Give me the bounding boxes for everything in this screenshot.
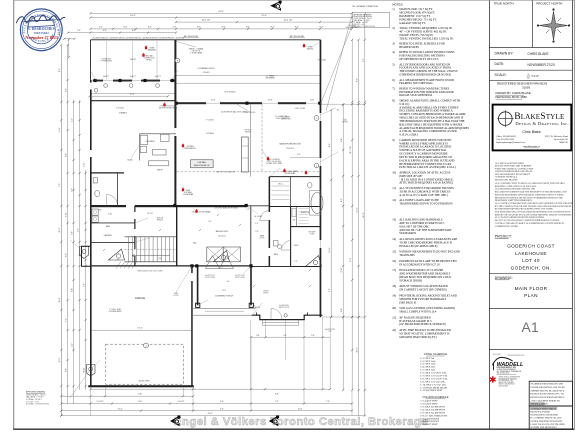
svg-text:LINTEL SCHEDULE: LINTEL SCHEDULE [424,352,448,356]
svg-text:L-2 2 PLY 2x10: L-2 2 PLY 2x10 [421,361,437,363]
leader lines fan from top wall [177,42,197,48]
svg-text:27'-4": 27'-4" [137,327,142,329]
line of floor above dashed [177,171,321,173]
svg-text:DRAWINGS IN WHOLE OR IN PART I: DRAWINGS IN WHOLE OR IN PART IS FORBIDDE… [495,196,564,199]
svg-text:STEEL INSUL DOOR C/W CLOSER: STEEL INSUL DOOR C/W CLOSER [137,271,163,273]
svg-text:"=1'-0": "=1'-0" [531,74,539,78]
svg-text:N0M 1J0: N0M 1J0 [559,142,568,144]
svg-text:17): 17) [392,268,396,272]
left dimension chains [60,45,62,416]
svg-text:BUILT-IN: BUILT-IN [157,218,163,220]
svg-text:6): 6) [392,78,394,82]
svg-text:GODERICH, ON.: GODERICH, ON. [511,266,552,271]
svg-text:ENSUITE: ENSUITE [301,212,310,214]
svg-text:18'-7 3/4": 18'-7 3/4" [350,145,352,154]
svg-text:LIVING: LIVING [206,133,213,135]
svg-text:WITHIN THE BUILDING.: WITHIN THE BUILDING. [530,426,557,429]
svg-text:OF DIFFERENT PLYS OF LVL'S: OF DIFFERENT PLYS OF LVL'S [399,57,439,61]
svg-text:2'-8": 2'-8" [255,231,259,233]
svg-text:9' CEILING: 9' CEILING [116,108,125,110]
svg-text:C-7 4x4 HSS POST: C-7 4x4 HSS POST [421,418,440,420]
svg-text:L-5 3 PLY 2x12: L-5 3 PLY 2x12 [421,370,437,372]
BlakeStyle circle logo [499,112,513,126]
svg-text:3'-6": 3'-6" [208,221,212,223]
svg-text:Chris Blake: Chris Blake [522,130,540,134]
svg-text:CONTRACTOR MUST VERIFY ALL DIM: CONTRACTOR MUST VERIFY ALL DIMENSIONS ON… [495,222,565,225]
svg-text:L-9 2 PLY 1.75"x14" LVL: L-9 2 PLY 1.75"x14" LVL [421,381,446,383]
deck joist lines [175,74,321,76]
svg-text:GARAGE: 609 SQ FT.: GARAGE: 609 SQ FT. [399,21,426,25]
svg-text:8x8 P.T: 8x8 P.T [103,76,109,78]
svg-text:57% OPT + 44%: 57% OPT + 44% [354,24,366,26]
svg-text:3): 3) [392,42,394,46]
svg-text:7'-4": 7'-4" [77,30,81,32]
svg-text:ENTRY: ENTRY [263,292,268,294]
svg-text:ELECTRICAL CIRCUIT AS PER (OBC: ELECTRICAL CIRCUIT AS PER (OBC 9.33.4.) [399,165,455,169]
svg-text:22): 22) [392,328,396,332]
svg-text:DRAWING:: DRAWING: [495,276,513,280]
svg-text:8'-4": 8'-4" [320,27,324,29]
svg-text:18): 18) [392,284,396,288]
svg-text:9.10.19.1 (3)(4.): 9.10.19.1 (3)(4.) [399,133,418,137]
post circles below band [94,88,98,92]
top dimension row 5 [91,28,353,30]
title block outline [488,0,490,429]
svg-text:COLUMN SCHEDULE: COLUMN SCHEDULE [422,395,448,399]
svg-text:8'-4": 8'-4" [295,27,299,29]
laundry washer dryer [92,209,98,215]
approved drawing note top right [352,12,390,27]
svg-text:STORAGE DOOR): STORAGE DOOR) [399,278,422,282]
svg-text:ON TOP OF: ON TOP OF [192,50,201,52]
kitchen north wall [91,100,176,102]
svg-text:9'-6": 9'-6" [66,368,68,372]
svg-text:5): 5) [392,62,394,66]
svg-text:L-11 W8x31 STEEL BEAM: L-11 W8x31 STEEL BEAM [421,386,447,389]
top dimension row 4 left [68,32,176,34]
svg-text:C-4 2 PLY 2x6 SPF POST: C-4 2 PLY 2x6 SPF POST [421,409,446,411]
svg-text:8'-6": 8'-6" [357,78,359,82]
left deck window band wall [93,80,175,82]
svg-text:3 PLY 2x10 FLUSH: 3 PLY 2x10 FLUSH [267,161,282,163]
svg-text:METER: METER [342,121,348,123]
garage pier leader [70,370,90,398]
svg-text:2): 2) [392,26,394,30]
svg-text:9'-8": 9'-8" [66,153,68,157]
svg-text:24'-2": 24'-2" [59,297,61,302]
svg-text:GREATER THAN 3000 SQ FT.): GREATER THAN 3000 SQ FT.) [399,335,437,339]
svg-text:11): 11) [392,186,396,190]
svg-text:14): 14) [392,237,396,241]
svg-text:2'-10": 2'-10" [84,162,86,167]
deck inner dim line [90,95,169,97]
svg-text:C-1 4x4 P.T POST: C-1 4x4 P.T POST [421,401,439,403]
junction squares [173,204,176,207]
main interior vertical wall [174,40,176,207]
svg-text:46'-2": 46'-2" [363,212,365,217]
svg-text:LIN: LIN [293,220,295,222]
svg-text:PROJECT:: PROJECT: [495,234,512,238]
svg-text:DRAWN BY:: DRAWN BY: [495,51,514,55]
svg-text:(24" FROM PORCH/DECK SURFACE): (24" FROM PORCH/DECK SURFACE) [399,322,446,326]
sheet frame right border [573,0,575,429]
svg-text:31'-6": 31'-6" [357,207,359,212]
svg-text:6'-0": 6'-0" [297,154,301,156]
svg-text:AND/OR HOMEOWNER AND SHALL: AND/OR HOMEOWNER AND SHALL [495,170,534,173]
svg-text:LINEN: LINEN [294,245,299,247]
circle tags [175,58,180,63]
svg-text:T4: T4 [221,267,223,269]
stairwell right wall lower [176,207,177,267]
svg-text:VIA CHANGE ORDER FROM THE DESI: VIA CHANGE ORDER FROM THE DESIGN FIRM. [495,216,545,219]
svg-text:6'-4": 6'-4" [72,288,74,292]
svg-text:4): 4) [392,50,394,54]
svg-text:PROJECT NORTH: PROJECT NORTH [536,2,562,6]
svg-text:7'-2": 7'-2" [59,183,61,187]
svg-text:8'-4": 8'-4" [148,27,152,29]
svg-text:November 27 2023: November 27 2023 [25,35,57,40]
svg-text:4'x7'6: 4'x7'6 [268,100,272,102]
svg-text:GARAGE: GARAGE [135,297,146,300]
svg-text:21'-4": 21'-4" [118,408,123,410]
pier marker left bump [80,247,89,259]
stairs [125,236,177,238]
svg-text:ALL SPECS & NOTED SIZES: ALL SPECS & NOTED SIZES [495,162,525,165]
svg-text:MUST BE RETURNED UPON REQUEST.: MUST BE RETURNED UPON REQUEST. REPRODUCT… [495,194,565,196]
svg-text:IN ACCORDANCE WITH 9.27.10: IN ACCORDANCE WITH 9.27.10 [399,262,440,266]
svg-text:5'-8": 5'-8" [84,283,86,287]
svg-text:(SEE PAGE 9): (SEE PAGE 9) [399,300,416,304]
svg-text:(DROPPED): (DROPPED) [282,118,291,120]
svg-text:16): 16) [392,259,396,263]
svg-text:W.I.C.: W.I.C. [278,183,284,185]
svg-text:RELATED DOCUMENTS ARE THE PROP: RELATED DOCUMENTS ARE THE PROPERTY OF TH… [495,191,567,194]
svg-text:ON CABINET LAYOUT (BY OTHERS): ON CABINET LAYOUT (BY OTHERS) [399,288,446,292]
garage top wall [91,265,252,267]
svg-text:15'-10": 15'-10" [147,213,153,215]
svg-text:blakestyledesign@hotmail.com: blakestyledesign@hotmail.com [496,141,525,144]
deck left edge [90,40,92,80]
covered porch walls [197,266,199,305]
svg-text:NOTES:: NOTES: [392,2,403,6]
top dimension row 3 [176,21,352,23]
svg-text:3'-8": 3'-8" [275,394,279,396]
svg-text:NOVEMBER 27/23: NOVEMBER 27/23 [528,63,555,67]
svg-text:19): 19) [392,294,396,298]
signature [16,15,65,23]
svg-text:9'-4": 9'-4" [220,401,224,403]
front entry wall with recess [252,315,323,319]
svg-text:L-8 3 PLY 1.75"x11.87" LVL: L-8 3 PLY 1.75"x11.87" LVL [421,378,449,380]
svg-text:9'-4": 9'-4" [226,281,230,283]
svg-text:21): 21) [392,315,396,319]
svg-text:WIRE: WIRE [150,48,154,50]
island [149,161,169,166]
sheet frame bottom border [13,428,574,430]
svg-text:L-10 3 PLY 1.75"x14" LVL: L-10 3 PLY 1.75"x14" LVL [421,384,447,386]
svg-text:APPROVED DRAWING: APPROVED DRAWING [354,14,373,17]
porch recess dimension [251,336,330,338]
stamped truss note box [529,381,572,406]
hall and bath interior detail [260,211,270,221]
svg-text:7'-4": 7'-4" [326,401,330,403]
svg-text:ENGINEERING LTD.: ENGINEERING LTD. [497,367,517,369]
svg-text:CHRIS BLAKE: CHRIS BLAKE [528,52,549,56]
svg-text:31'-4": 31'-4" [261,15,267,17]
hall walls right section [291,266,320,268]
garage door dashed [106,344,184,384]
svg-text:SHOWER: SHOWER [309,232,317,234]
svg-text:INSTALLATION: INSTALLATION [530,403,548,406]
svg-text:8'-6": 8'-6" [329,143,331,147]
master bedroom wall vertical [269,177,271,267]
svg-text:12): 12) [392,198,396,202]
svg-text:2'-8": 2'-8" [311,335,315,337]
svg-text:ON 12" SONO: ON 12" SONO [205,277,216,279]
svg-text:4 PLY 1 3/4 LVL FLUSH: 4 PLY 1 3/4 LVL FLUSH [160,106,178,108]
ensuite tub [311,193,323,214]
extra leader lines [312,42,321,48]
svg-text:7'-2": 7'-2" [66,318,68,322]
svg-text:5.7% OPT + 4.4%: 5.7% OPT + 4.4% [26,401,39,403]
svg-text:ATTIC HATCH REQUIRES A R-20 RA: ATTIC HATCH REQUIRES A R-20 RATING) [399,181,453,185]
svg-text:Brucefield, ON: Brucefield, ON [554,138,568,141]
svg-text:CONSENT FROM ALL: CONSENT FROM ALL [495,176,518,179]
svg-text:5'-2": 5'-2" [72,118,74,122]
svg-text:1): 1) [392,7,394,11]
svg-text:TRANSOMS: TRANSOMS [399,253,415,257]
svg-text:MUD: MUD [106,226,111,228]
svg-text:A1: A1 [522,320,539,335]
svg-text:T5: T5 [117,260,119,262]
svg-text:COVERED DECK: COVERED DECK [197,68,215,70]
svg-text:ALL DRAWINGS SPECIFICATIONS AN: ALL DRAWINGS SPECIFICATIONS AND [495,188,536,191]
top dimension row 2 [91,17,353,19]
extra chain ticks right [342,149,344,151]
svg-text:8'-4": 8'-4" [132,30,136,32]
svg-text:18'-4": 18'-4" [130,15,136,17]
svg-text:3'-2": 3'-2" [329,288,331,292]
svg-text:BEDROOM BELOW: BEDROOM BELOW [194,165,210,167]
svg-text:9): 9) [392,138,394,142]
svg-text:18x18: 18x18 [84,368,86,372]
bedroom2 closet [207,247,223,262]
red asterisk note [490,376,496,382]
svg-text:MAY BE CHECKED AND VERIFIED: MAY BE CHECKED AND VERIFIED [495,165,532,168]
powder door arc [107,195,118,206]
svg-text:11'-0": 11'-0" [138,401,143,403]
svg-text:HEADER SIZES: HEADER SIZES [399,45,419,49]
svg-text:PERSONAL BCIN: 2586: PERSONAL BCIN: 2586 [496,95,528,99]
powder room walls [91,172,125,174]
svg-text:3'0x6'8 INSUL: 3'0x6'8 INSUL [279,305,289,307]
svg-text:L-12 W8 STEEL POST: L-12 W8 STEEL POST [421,390,443,392]
svg-text:4'x7'6: 4'x7'6 [310,100,314,102]
svg-text:BE REPORTED BEFORE PROCEEDING: BE REPORTED BEFORE PROCEEDING WITH ANY W… [495,208,554,211]
svg-text:9' CEILING: 9' CEILING [206,120,215,122]
master bedroom wall horizontal [269,176,319,178]
svg-text:SHALL COMPLY WITH 9.13.4: SHALL COMPLY WITH 9.13.4 [399,310,437,314]
svg-text:ROUGH STUD OPENINGS: ROUGH STUD OPENINGS [399,93,432,97]
svg-text:C-2 6x6 P.T POST: C-2 6x6 P.T POST [421,404,439,406]
svg-text:2'-10": 2'-10" [138,394,143,396]
extra inner dim ticks [253,285,255,287]
svg-text:4'-6": 4'-6" [78,228,80,232]
main north wall band with windows [175,102,321,104]
south arrow bottom 2 [269,415,279,426]
svg-text:10): 10) [392,171,396,175]
svg-text:BENCH: BENCH [157,219,162,221]
sheet frame top border [14,0,575,1]
extra chain ticks left [60,119,62,121]
svg-text:TEL 519-357-2250: TEL 519-357-2250 [497,373,510,375]
BlakeStyle logo box [493,105,572,151]
svg-text:BEDROOM 2: BEDROOM 2 [216,231,229,233]
svg-text:PLAN: PLAN [524,293,538,298]
title block north cells [489,47,572,49]
svg-text:ENTRY DOOR: ENTRY DOOR [279,307,290,309]
boxed low wall label [191,160,214,168]
svg-text:Office: 519-482-4092: Office: 519-482-4092 [496,136,516,138]
svg-text:SCALE:: SCALE: [495,73,507,77]
svg-text:8x8 P.T: 8x8 P.T [155,76,161,78]
svg-text:5'-2": 5'-2" [72,343,74,347]
svg-text:L-7 2 PLY 1.75"x11.87" LVL: L-7 2 PLY 1.75"x11.87" LVL [421,376,449,378]
svg-text:31'0x8'0: 31'0x8'0 [203,72,210,74]
wic hatch [272,181,290,183]
entry door arc [271,308,282,319]
bottom dimension rows [91,388,331,390]
svg-text:LOW WALL: LOW WALL [197,161,206,164]
svg-text:4'-2": 4'-2" [255,223,259,225]
north arrow top 1 [270,1,281,11]
svg-text:6'-4": 6'-4" [341,308,343,312]
svg-text:11'-2": 11'-2" [59,127,61,132]
svg-text:COVERED PORCH: COVERED PORCH [215,295,234,297]
ensuite walls [269,206,319,208]
bedroom2 walls [250,206,252,266]
svg-text:DINING: DINING [119,113,127,115]
svg-text:www.blakestyle.ca: www.blakestyle.ca [523,145,541,148]
svg-text:FRAMING NOT DRYWALL: FRAMING NOT DRYWALL [399,81,433,85]
svg-text:OTHERWISE DIMENSIONED OR NOTED: OTHERWISE DIMENSIONED OR NOTED [399,73,451,77]
svg-text:8'-4": 8'-4" [124,27,128,29]
svg-text:T1/2: T1/2 [222,290,226,292]
svg-text:COMMENCING WORK.: COMMENCING WORK. [495,226,519,228]
svg-text:APPROVED DRAWING: APPROVED DRAWING [26,391,46,394]
svg-text:12'-4": 12'-4" [298,408,303,410]
major mid wall [91,205,247,207]
svg-text:C-9 8x8 P.T POST: C-9 8x8 P.T POST [421,424,439,426]
svg-text:18'-4 1/4": 18'-4 1/4" [201,20,210,22]
deck post grid verticals [105,41,107,79]
engineer stamp [20,9,62,51]
svg-text:ON 12" SONO: ON 12" SONO [235,277,246,279]
svg-text:TOTAL VENTING INSTALLED: 1218: TOTAL VENTING INSTALLED: 1218 SQ IN. [399,36,454,40]
svg-text:ALL CONTRACTORS MUST BE CHECKE: ALL CONTRACTORS MUST BE CHECKED AND VERI… [495,202,573,205]
svg-text:15): 15) [392,250,396,254]
svg-text:INSTALLED (IF APPLICABLE): INSTALLED (IF APPLICABLE) [399,244,437,248]
svg-text:LOT 40: LOT 40 [522,258,540,263]
svg-text:20): 20) [392,306,396,310]
left wall of house [90,80,92,387]
svg-text:9'-10": 9'-10" [341,267,343,272]
svg-text:36'-0": 36'-0" [357,347,359,352]
svg-text:7'-4": 7'-4" [275,401,279,403]
bottom vertical extension lines [250,320,252,389]
svg-text:CONSULTING ENGINEERS: CONSULTING ENGINEERS [497,369,516,371]
svg-text:11'6x10'2: 11'6x10'2 [218,236,225,238]
svg-text:7'-4": 7'-4" [173,27,177,29]
svg-text:36x48: 36x48 [186,190,190,192]
svg-text:OPEN TO: OPEN TO [245,130,253,132]
svg-text:7'-7": 7'-7" [72,188,74,192]
svg-text:8'-4": 8'-4" [197,27,201,29]
svg-text:L.R PRESSURE: L.R PRESSURE [100,60,112,62]
svg-text:1'-2": 1'-2" [246,209,250,211]
kitchen counters [139,134,141,161]
svg-text:8'-4": 8'-4" [271,27,275,29]
porch gable triangles [206,256,220,269]
svg-text:C/W WIRE MESH: C/W WIRE MESH [109,311,123,313]
svg-text:CONNECTION: CONNECTION [144,57,156,59]
svg-text:7'-4": 7'-4" [99,27,103,29]
svg-text:L-4 2 PLY 2x12: L-4 2 PLY 2x12 [421,367,437,369]
svg-text:Cell: 519-955-2342: Cell: 519-955-2342 [496,139,515,141]
svg-text:WITH THE GENERAL CONTRACTOR: WITH THE GENERAL CONTRACTOR [495,167,534,170]
svg-text:40'-6": 40'-6" [59,227,61,232]
mud room walls [91,222,136,224]
svg-text:12177 St. Michaels Road: 12177 St. Michaels Road [545,135,569,138]
svg-text:C-6 3.5" ADJ. STEEL POST: C-6 3.5" ADJ. STEEL POST [421,414,448,417]
svg-text:XXXXXX XXXXXX XXX: XXXXXX XXXXXX XXX [508,355,526,357]
deck top edge wall [91,39,321,41]
svg-text:DECK: DECK [130,59,136,61]
basement stair hatch [116,262,121,269]
svg-text:TRANSFERRED DOWN TO FOUNDATION: TRANSFERRED DOWN TO FOUNDATION [399,201,452,205]
garage interior slab line [91,329,192,331]
svg-text:11'-2": 11'-2" [350,257,352,262]
svg-text:BY THE CONTRACTOR OR SUB TRADE: BY THE CONTRACTOR OR SUB TRADES AND ANY … [495,205,572,208]
south arrow bottom 1 [170,415,180,426]
svg-text:DESIGNERS WRITTEN PERMISSION.: DESIGNERS WRITTEN PERMISSION. [495,200,533,202]
svg-text:MAIN FLOOR: MAIN FLOOR [515,286,548,291]
svg-text:BUILDING CODE AND LOCAL BY-LAW: BUILDING CODE AND LOCAL BY-LAWS. [495,185,537,188]
stamp-side deck dimension [64,38,74,40]
svg-text:6x6 PT POST: 6x6 PT POST [205,275,215,277]
svg-text:6x6 PT POST: 6x6 PT POST [235,275,245,277]
svg-text:C-8 6x6 HSS POST: C-8 6x6 HSS POST [421,421,440,423]
svg-text:LAKEHOUSE: LAKEHOUSE [515,251,547,256]
svg-text:STANDARDS: STANDARDS [399,231,416,235]
svg-text:MC 1 MOMENT CONNECTION: MC 1 MOMENT CONNECTION [353,6,379,8]
svg-text:14'-4 1/4": 14'-4 1/4" [283,20,292,22]
svg-text:LVL FLUSH: LVL FLUSH [254,216,262,218]
svg-text:16'x8' OHD: 16'x8' OHD [138,380,149,382]
svg-text:5'-0": 5'-0" [294,261,298,263]
svg-text:XXX XXXX: XXX XXXX [493,354,502,356]
svg-text:8'-6": 8'-6" [59,68,61,72]
svg-text:8'-0": 8'-0" [66,253,68,257]
svg-text:KITCHEN: KITCHEN [146,141,155,143]
sheet frame left border [13,0,15,429]
svg-text:DESIGN & DRAFTING INC.: DESIGN & DRAFTING INC. [515,121,569,126]
svg-text:NOT BE REPRODUCED WITHOUT: NOT BE REPRODUCED WITHOUT [495,174,531,176]
garage right wall [191,266,193,387]
pier marker garage bottom left [87,365,96,377]
svg-text:Engel & Völkers Toronto Centra: Engel & Völkers Toronto Central, Brokera… [174,416,428,428]
svg-text:5'-0 1/2": 5'-0 1/2" [97,401,104,403]
